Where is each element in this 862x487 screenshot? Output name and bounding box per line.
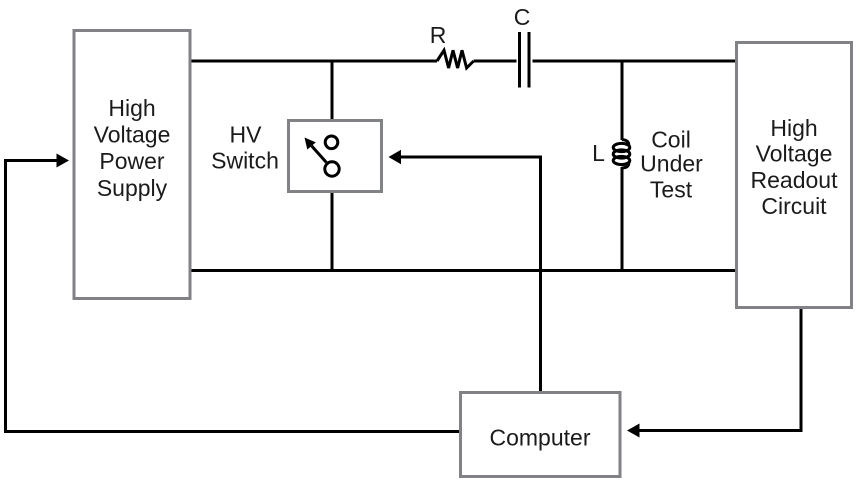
svg-text:Voltage: Voltage [94, 122, 171, 148]
svg-text:Voltage: Voltage [756, 141, 833, 167]
label Coil Under Test [640, 127, 703, 203]
switch lever with arrowhead [312, 146, 327, 163]
svg-text:Power: Power [99, 148, 165, 174]
svg-text:R: R [430, 22, 447, 48]
svg-text:C: C [514, 4, 531, 30]
wire top bus from power supply to resistor [191, 60, 437, 63]
switch contact top circle [325, 136, 338, 149]
wire HV switch to bottom bus [331, 192, 334, 271]
svg-text:Switch: Switch [211, 148, 279, 174]
svg-text:Readout: Readout [751, 167, 839, 193]
wire top bus to HV switch [331, 61, 334, 121]
switch contact bottom circle [325, 162, 339, 176]
svg-text:High: High [770, 115, 817, 141]
arrowhead into computer [627, 424, 640, 438]
svg-text:Test: Test [650, 176, 693, 202]
wire resistor to capacitor [474, 60, 517, 63]
wire computer control to HV switch [399, 157, 541, 392]
label HV Switch [211, 122, 279, 174]
wire inductor to bottom bus [621, 167, 624, 271]
arrowhead into HV switch [389, 150, 402, 164]
svg-text:Coil: Coil [651, 127, 691, 153]
wire capacitor to readout box [533, 60, 737, 63]
wire top bus to inductor [621, 61, 624, 140]
svg-text:Circuit: Circuit [761, 193, 827, 219]
wire bottom bus [191, 269, 736, 272]
svg-text:L: L [592, 140, 605, 166]
svg-text:High: High [108, 95, 155, 121]
capacitor C plates [520, 32, 530, 88]
inductor L coil [613, 140, 630, 169]
box High Voltage Readout Circuit [737, 43, 852, 308]
box High Voltage Power Supply [74, 31, 190, 299]
svg-text:Under: Under [640, 150, 703, 176]
box Computer [461, 393, 621, 477]
svg-text:Computer: Computer [490, 424, 591, 450]
wire computer to power supply (left loop) [6, 161, 461, 432]
resistor R [437, 50, 474, 68]
box HV Switch [289, 121, 382, 192]
arrowhead into power supply [57, 154, 70, 168]
svg-text:HV: HV [230, 122, 263, 148]
wire readout circuit to computer [638, 308, 801, 431]
svg-text:Supply: Supply [97, 175, 168, 201]
